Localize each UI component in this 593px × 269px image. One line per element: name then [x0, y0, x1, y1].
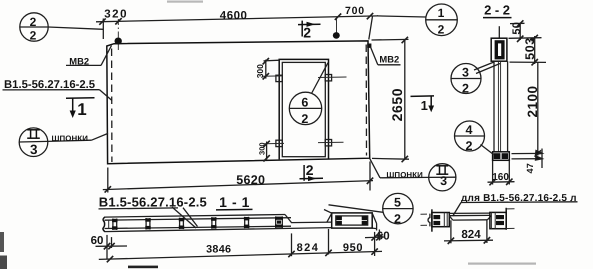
door opening outer frame — [279, 59, 328, 159]
callout circle 5/2 — [324, 193, 413, 223]
detail flange/slab — [449, 213, 491, 220]
anchor tab on door frame — [325, 75, 331, 81]
section mark 1 right — [411, 96, 435, 107]
wire extension line mid — [336, 19, 338, 34]
embed plate top-right corner — [367, 44, 371, 48]
scan artifact bottom streak — [128, 266, 158, 269]
node tick 320/4600 — [115, 18, 121, 24]
callout circle 1/2 top-right — [369, 4, 458, 40]
svg-text:5: 5 — [394, 195, 401, 209]
scan artifact top smudge — [167, 1, 203, 3]
panel section 1-1 flange outline — [104, 215, 332, 232]
node tick 4600/700 — [335, 14, 341, 20]
svg-text:2: 2 — [303, 24, 311, 40]
wire centerline embed — [117, 19, 119, 52]
svg-text:1: 1 — [421, 98, 428, 113]
dimension 824 detail — [444, 220, 493, 244]
rib with anchors section 1-1 — [211, 217, 216, 229]
svg-text:160: 160 — [492, 172, 509, 183]
wire top dimension line — [96, 16, 378, 22]
svg-text:4: 4 — [466, 123, 473, 137]
svg-text:2650: 2650 — [389, 88, 405, 122]
panel section right end chamfer — [285, 215, 332, 223]
detail right block — [490, 212, 506, 228]
callout circle II/3 right — [370, 158, 456, 191]
rib with anchors section 1-1 — [244, 217, 249, 228]
anchor tab on door frame — [276, 140, 282, 146]
web lines section 2-2 — [494, 61, 508, 152]
svg-text:824: 824 — [461, 228, 481, 241]
section mark 1 left — [66, 98, 95, 112]
svg-text:320: 320 — [104, 9, 128, 21]
svg-text:3: 3 — [30, 142, 38, 157]
dimension 503 section 2-2 — [509, 35, 547, 66]
svg-text:2: 2 — [466, 139, 473, 153]
svg-text:ШПОНКИ: ШПОНКИ — [52, 134, 89, 143]
dimension chain 3846/824/950 — [99, 229, 382, 262]
wire tab stub right top — [318, 76, 347, 79]
dimension 47 section 2-2 — [512, 149, 543, 169]
wire tab stub left top — [263, 75, 283, 77]
rib with anchors section 1-1 — [145, 218, 150, 229]
door opening inner frame — [282, 62, 325, 156]
svg-text:1: 1 — [438, 6, 445, 20]
svg-text:2: 2 — [30, 15, 37, 29]
dimension 160 section 2-2 — [488, 160, 515, 185]
callout circle 2/2 top-left — [20, 13, 104, 41]
wire extension line left — [102, 19, 104, 40]
pier block chamfers — [327, 213, 377, 230]
embed plate dot top-left — [115, 38, 122, 45]
svg-text:47: 47 — [525, 163, 535, 173]
dimension 300 bottom — [263, 141, 269, 162]
svg-text:2-2: 2-2 — [484, 2, 513, 17]
callout circle II/3 left — [19, 128, 108, 157]
callout circle 6/2 in opening — [289, 63, 328, 125]
svg-text:3: 3 — [440, 174, 447, 188]
panel outline plan view — [107, 41, 370, 164]
svg-text:2: 2 — [462, 82, 469, 96]
dimension 50 section 2-2 — [510, 20, 525, 42]
embed plate dot top-middle — [333, 32, 340, 39]
detail piece cut edge left — [431, 209, 433, 231]
svg-text:300: 300 — [255, 64, 265, 78]
svg-text:1-1: 1-1 — [219, 194, 254, 210]
svg-text:2100: 2100 — [525, 85, 540, 117]
rib with anchors section 1-1 — [112, 219, 117, 230]
dimension 2100 section 2-2 — [512, 62, 543, 156]
anchor tab on door frame — [276, 75, 282, 81]
svg-text:3: 3 — [462, 66, 469, 80]
pier block 950 section 1-1 — [332, 213, 373, 228]
detail piece stubs right — [506, 209, 514, 229]
node tick 700 right — [367, 13, 373, 19]
wire tab stub right bottom — [318, 141, 344, 143]
svg-text:5620: 5620 — [236, 173, 265, 187]
svg-text:503: 503 — [523, 37, 537, 60]
svg-text:824: 824 — [297, 242, 320, 254]
section mark 2 bottom — [300, 165, 324, 181]
dimension 5620 below plan — [103, 162, 373, 193]
svg-text:2: 2 — [301, 112, 308, 126]
wire tab stub left bottom — [264, 142, 284, 144]
callout circle 4/2 — [455, 121, 494, 155]
detail left key — [428, 214, 430, 227]
detail piece cut edge right — [505, 208, 507, 230]
bottom rib box section 2-2 — [493, 152, 510, 161]
wire hidden rib right dashed — [365, 45, 367, 156]
svg-text:2: 2 — [438, 22, 445, 36]
centerline section 2-2 — [498, 26, 500, 38]
wire hidden rib left dashed — [111, 49, 113, 163]
callout circle 3/2 — [451, 62, 500, 94]
svg-text:700: 700 — [345, 5, 365, 17]
svg-text:3846: 3846 — [206, 243, 231, 255]
detail piece stubs left — [421, 214, 428, 225]
top rib box section 2-2 — [491, 38, 507, 61]
embed channel in top box — [495, 40, 505, 59]
svg-text:2: 2 — [394, 212, 401, 226]
anchor blobs pier block — [336, 216, 367, 224]
dimension 300 top — [263, 58, 280, 80]
section mark 2 top — [298, 21, 321, 37]
svg-text:2: 2 — [30, 28, 37, 42]
svg-text:В1.5-56.27.16-2.5: В1.5-56.27.16-2.5 — [99, 195, 207, 210]
svg-text:6: 6 — [301, 96, 308, 110]
svg-text:1: 1 — [77, 100, 86, 119]
anchor tab on door frame — [325, 140, 331, 146]
rib end with cross anchor section 1-1 — [275, 216, 283, 228]
scan artifact left edge — [0, 232, 4, 252]
node tick 320 left — [99, 18, 105, 24]
detail left block — [432, 213, 449, 227]
panel section left key edge — [103, 217, 105, 232]
svg-text:МВ2: МВ2 — [379, 54, 399, 65]
dimension 2650 right of plan — [372, 37, 410, 162]
svg-text:ШПОНКИ: ШПОНКИ — [386, 170, 423, 179]
svg-text:МВ2: МВ2 — [69, 55, 89, 66]
rib with anchors section 1-1 — [179, 218, 184, 229]
svg-text:50: 50 — [511, 22, 523, 35]
svg-text:4600: 4600 — [220, 10, 248, 22]
svg-text:2: 2 — [306, 162, 314, 178]
svg-text:60: 60 — [91, 235, 104, 247]
svg-text:950: 950 — [343, 242, 363, 254]
svg-text:300: 300 — [258, 142, 267, 155]
